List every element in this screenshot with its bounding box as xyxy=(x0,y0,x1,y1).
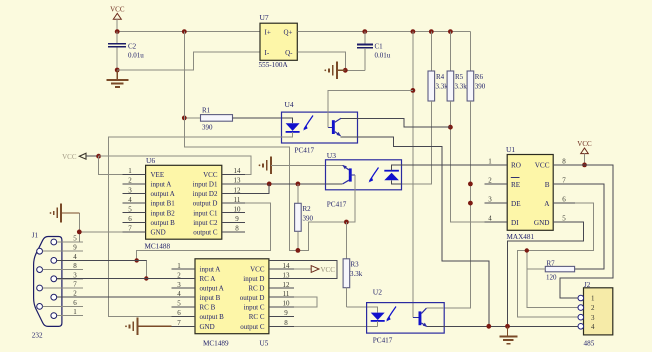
U3 phototransistor xyxy=(349,168,352,181)
junction R2 bottom xyxy=(296,248,301,253)
ground right of MC1488 pin14 xyxy=(270,157,272,175)
junction pin13 row / R2 top xyxy=(296,182,301,187)
svg-text:6: 6 xyxy=(177,309,181,317)
wire GND staircase down xyxy=(508,222,584,326)
svg-text:RC B: RC B xyxy=(200,304,216,312)
junction C2 bottom / I- return xyxy=(115,68,120,73)
svg-text:U5: U5 xyxy=(260,340,269,348)
wire B down to R7 right xyxy=(575,184,604,269)
svg-text:output D: output D xyxy=(193,200,218,208)
U4 photon arrows xyxy=(304,116,313,130)
ground above DB9 xyxy=(61,212,79,214)
svg-text:1: 1 xyxy=(488,157,492,165)
svg-text:6: 6 xyxy=(562,196,566,204)
svg-text:PC417: PC417 xyxy=(373,337,393,345)
junction C1 top xyxy=(362,29,367,34)
junction R6 line / RE xyxy=(468,182,473,187)
J1 pin 3 xyxy=(51,276,57,282)
wire Q+ rail down to U2 base xyxy=(412,32,414,318)
junction R5 / U4 collector xyxy=(448,125,453,130)
svg-text:input C2: input C2 xyxy=(193,219,218,227)
J1 pin 5 xyxy=(51,239,57,245)
svg-text:3: 3 xyxy=(128,186,132,194)
junction U3 base / R3 top xyxy=(344,220,349,225)
svg-text:8: 8 xyxy=(284,319,288,327)
svg-text:0.01u: 0.01u xyxy=(128,52,144,60)
wire VCC staircase to J2 pin1 xyxy=(560,165,613,298)
wire pin12 tie xyxy=(245,184,269,194)
svg-text:2: 2 xyxy=(73,290,77,298)
svg-text:4: 4 xyxy=(177,290,181,298)
svg-text:VEE: VEE xyxy=(151,171,165,179)
svg-text:390: 390 xyxy=(202,124,213,132)
svg-text:B: B xyxy=(545,181,550,189)
U2 phototransistor xyxy=(419,311,422,325)
svg-text:11: 11 xyxy=(283,290,290,298)
svg-text:2: 2 xyxy=(488,177,492,185)
svg-text:10: 10 xyxy=(234,206,242,214)
svg-text:5: 5 xyxy=(562,215,566,223)
junction R4 top xyxy=(429,29,434,34)
svg-text:output B: output B xyxy=(151,219,176,227)
wire R6 bottom to RE DE and U2 collector xyxy=(444,101,470,308)
svg-text:0.01u: 0.01u xyxy=(375,52,391,60)
svg-text:7: 7 xyxy=(562,177,566,185)
svg-text:14: 14 xyxy=(234,167,242,175)
resistor R5 xyxy=(449,32,451,71)
svg-text:12: 12 xyxy=(234,186,242,194)
svg-text:GND: GND xyxy=(534,219,550,227)
svg-text:2: 2 xyxy=(128,177,132,185)
svg-text:output C: output C xyxy=(193,229,218,237)
svg-text:input B: input B xyxy=(200,294,221,302)
svg-text:GND: GND xyxy=(200,323,215,331)
svg-text:6: 6 xyxy=(73,299,77,307)
resistor R4 xyxy=(430,32,432,71)
svg-text:4: 4 xyxy=(488,215,492,223)
svg-text:1: 1 xyxy=(177,262,181,270)
svg-text:390: 390 xyxy=(303,215,314,223)
wire Q- to ground xyxy=(297,52,345,71)
wire DB9 pin3 row to MC1489 pin2 xyxy=(57,278,172,280)
J2 pin 4 xyxy=(578,324,584,330)
svg-text:R1: R1 xyxy=(202,107,211,115)
junction R6 line / DE xyxy=(468,201,473,206)
capacitor C2 xyxy=(116,32,118,44)
wire VCC to MC1488 pin1 xyxy=(99,156,146,174)
svg-text:input C1: input C1 xyxy=(193,209,218,217)
wire U4 emitter staircase to ground row xyxy=(341,137,489,326)
svg-text:output B: output B xyxy=(200,313,225,321)
junction R5 top xyxy=(448,29,453,34)
J1 pin 8 xyxy=(37,267,43,273)
junction VCC branch x=184 xyxy=(182,29,187,34)
wire VCC rail to U7 I+ xyxy=(117,31,260,33)
svg-text:J1: J1 xyxy=(32,232,39,240)
svg-text:DE: DE xyxy=(511,200,521,208)
wire R5 bottom to MAX481 DI xyxy=(450,101,484,222)
U3 LED xyxy=(384,170,399,172)
junction pin13/pin12 tie xyxy=(267,182,272,187)
svg-text:3: 3 xyxy=(177,281,181,289)
svg-text:232: 232 xyxy=(32,332,43,340)
svg-text:RC C: RC C xyxy=(249,313,265,321)
wire R7 left up to A and down to J2 pin2 xyxy=(527,251,546,270)
svg-text:R4: R4 xyxy=(436,73,445,81)
wire ground to U3 emitter xyxy=(271,164,343,166)
resistor R6 xyxy=(469,32,471,71)
svg-text:DI: DI xyxy=(511,219,519,227)
svg-text:input A: input A xyxy=(200,266,221,274)
svg-text:VCC: VCC xyxy=(203,171,218,179)
svg-text:8: 8 xyxy=(235,225,239,233)
svg-text:4: 4 xyxy=(128,196,132,204)
svg-text:U3: U3 xyxy=(327,151,336,160)
svg-text:4: 4 xyxy=(73,253,77,261)
U2 photon arrows xyxy=(387,307,396,321)
svg-text:input D2: input D2 xyxy=(193,190,218,198)
J1 pin 6 xyxy=(37,304,43,310)
wire R3 bottom to U2 LED xyxy=(346,307,377,313)
svg-text:RC A: RC A xyxy=(200,275,216,283)
svg-text:VCC: VCC xyxy=(321,266,336,274)
junction VCC / pin8 row xyxy=(582,163,587,168)
svg-text:9: 9 xyxy=(73,244,77,252)
resistor R2 xyxy=(297,184,299,203)
svg-text:VCC: VCC xyxy=(535,162,550,170)
vcc branch wire x=184 down and over to R2 bottom rail xyxy=(184,32,346,251)
svg-text:VCC: VCC xyxy=(62,153,77,161)
U4 LED xyxy=(286,123,300,131)
svg-text:VCC: VCC xyxy=(250,266,265,274)
svg-text:U7: U7 xyxy=(260,13,269,22)
svg-text:PC417: PC417 xyxy=(327,201,347,209)
svg-text:14: 14 xyxy=(283,262,291,270)
wire Q+ rail xyxy=(297,31,470,33)
svg-text:U4: U4 xyxy=(285,100,294,109)
wire U3 LED anode down/right xyxy=(392,180,402,184)
wire A staircase to J2 pin3 xyxy=(518,203,594,317)
svg-text:6: 6 xyxy=(128,215,132,223)
svg-text:output A: output A xyxy=(151,190,175,198)
wire U2 collector to R6 line xyxy=(426,307,444,309)
svg-text:7: 7 xyxy=(177,319,181,327)
svg-text:VCC: VCC xyxy=(577,140,592,148)
ground below C2 xyxy=(116,70,118,80)
svg-text:390: 390 xyxy=(475,83,486,91)
svg-text:120: 120 xyxy=(546,274,557,282)
svg-text:Q+: Q+ xyxy=(283,29,292,37)
ground right of U7 xyxy=(337,69,345,71)
svg-text:U1: U1 xyxy=(506,145,515,154)
J1 pin 2 xyxy=(51,294,57,300)
wire U4 collector to R5 line xyxy=(341,118,450,127)
svg-text:RO: RO xyxy=(511,162,521,170)
svg-text:5: 5 xyxy=(73,235,77,243)
wire R4 bottom to U3 LED anode xyxy=(402,101,432,184)
power arrow VCC at MC1489 pin14 xyxy=(294,268,311,270)
capacitor C1 xyxy=(364,32,366,45)
ground left of MC1489 GND xyxy=(138,325,172,327)
J2 pin 3 xyxy=(578,314,584,320)
svg-text:5: 5 xyxy=(128,206,132,214)
svg-text:9: 9 xyxy=(235,215,239,223)
svg-text:input B1: input B1 xyxy=(151,200,176,208)
svg-text:R3: R3 xyxy=(351,261,360,269)
svg-text:1: 1 xyxy=(73,308,77,316)
svg-text:output C: output C xyxy=(240,323,265,331)
svg-text:1: 1 xyxy=(128,167,132,175)
J2 pin 2 xyxy=(578,305,584,311)
junction DB9 pin5 / GND row xyxy=(77,230,82,235)
svg-text:2: 2 xyxy=(177,271,181,279)
junction DB9 pin3 wire xyxy=(144,276,148,280)
J1 pin 9 xyxy=(37,248,43,254)
svg-text:12: 12 xyxy=(283,281,291,289)
svg-text:3: 3 xyxy=(488,196,492,204)
svg-text:3.3k: 3.3k xyxy=(436,83,449,91)
wire DB9 pin5 riser to ground and MC1488 GND xyxy=(78,213,80,242)
J1 pin 7 xyxy=(37,285,43,291)
U4 phototransistor xyxy=(332,120,335,134)
svg-text:R2: R2 xyxy=(303,205,312,213)
svg-text:MAX481: MAX481 xyxy=(507,233,535,241)
svg-text:input A: input A xyxy=(151,181,172,189)
svg-text:555-100A: 555-100A xyxy=(259,61,289,69)
svg-text:MC1488: MC1488 xyxy=(145,243,171,251)
svg-text:3.3k: 3.3k xyxy=(350,270,363,278)
svg-text:8: 8 xyxy=(73,262,77,270)
wire R1 to U4 LED xyxy=(233,118,293,123)
U3 photon arrows xyxy=(370,168,379,182)
svg-text:U2: U2 xyxy=(373,288,382,297)
junction base line U2 xyxy=(411,29,416,34)
junction R1 / VCC branch xyxy=(182,116,187,121)
svg-text:5: 5 xyxy=(177,300,181,308)
wire U4 LED cathode long run to MC1489 pin6 xyxy=(108,132,292,317)
svg-text:8: 8 xyxy=(562,157,566,165)
svg-text:2: 2 xyxy=(591,304,595,312)
svg-text:7: 7 xyxy=(128,225,132,233)
wire DB9 pin4 row xyxy=(57,259,146,261)
svg-text:3: 3 xyxy=(591,314,595,322)
svg-text:C2: C2 xyxy=(128,43,137,51)
wire ground row to J2 pin4 xyxy=(489,325,578,327)
svg-text:VCC: VCC xyxy=(110,6,125,14)
svg-text:GND: GND xyxy=(151,229,166,237)
svg-text:10: 10 xyxy=(283,300,291,308)
svg-text:3.3k: 3.3k xyxy=(455,83,468,91)
junction VCC arrow node xyxy=(96,154,101,159)
svg-text:485: 485 xyxy=(584,340,595,348)
wire U3 base down to R3 junction xyxy=(346,190,355,222)
wire U3 LED cathode to MAX481 RO xyxy=(392,165,485,171)
resistor R3 xyxy=(345,222,347,259)
wire U2 emitter to ground row xyxy=(427,325,489,327)
wire MC1489 pin13 loop to grounded run xyxy=(269,260,337,278)
svg-text:13: 13 xyxy=(234,177,242,185)
svg-text:input D: input D xyxy=(243,275,264,283)
svg-text:input D1: input D1 xyxy=(193,181,218,189)
svg-text:I-: I- xyxy=(265,49,270,57)
svg-text:1: 1 xyxy=(591,295,595,303)
junction U4 base branch xyxy=(411,88,416,93)
svg-text:output D: output D xyxy=(240,294,265,302)
svg-text:A: A xyxy=(544,200,550,208)
wire MC1488 pin13 row to R2 and U3 collector xyxy=(245,183,326,185)
svg-text:C1: C1 xyxy=(375,43,384,51)
junction VCC/C2 xyxy=(115,29,120,34)
svg-text:RE: RE xyxy=(511,181,521,189)
svg-text:input C: input C xyxy=(244,304,265,312)
junction DB9 pin4 wire xyxy=(135,258,139,262)
svg-text:Q-: Q- xyxy=(285,49,293,57)
svg-text:9: 9 xyxy=(284,309,288,317)
svg-text:output A: output A xyxy=(200,285,224,293)
svg-text:PC417: PC417 xyxy=(295,147,315,155)
wire VCC to MC1488 pin14 xyxy=(99,156,252,174)
svg-text:11: 11 xyxy=(234,196,241,204)
svg-text:I+: I+ xyxy=(265,29,271,37)
U2 LED xyxy=(371,313,385,320)
wire U7 I- to C2 bottom xyxy=(117,52,260,70)
J1 pin 4 xyxy=(51,258,57,264)
wire DB9 pin2 row to MC1489 pin4 xyxy=(57,296,172,298)
junction GND staircase / ground row xyxy=(505,324,510,329)
IC U5 MC1489 xyxy=(195,259,269,334)
wire MC1488 pin11 staircase to MC1489 pin2 xyxy=(137,203,271,278)
svg-text:4: 4 xyxy=(591,323,595,331)
svg-text:RC D: RC D xyxy=(248,285,264,293)
junction R7 / A wire xyxy=(525,248,529,252)
wire U4 base up to Q+ line xyxy=(328,90,413,127)
junction Q-/C1/ground xyxy=(343,68,348,73)
J1 pin 1 xyxy=(51,313,57,319)
svg-text:R6: R6 xyxy=(475,73,484,81)
svg-text:R5: R5 xyxy=(455,73,464,81)
svg-text:U6: U6 xyxy=(146,156,155,165)
svg-text:MC1489: MC1489 xyxy=(203,340,229,348)
junction U4 emitter / ground row xyxy=(486,324,491,329)
svg-text:7: 7 xyxy=(73,281,77,289)
wire MC1489 pin8 to U2 LED cathode xyxy=(294,325,378,327)
svg-text:input B2: input B2 xyxy=(151,209,176,217)
wire MC1489 pins10-11 loop xyxy=(294,297,317,307)
svg-text:13: 13 xyxy=(283,271,291,279)
ground bottom center xyxy=(507,326,509,336)
J2 pin 1 xyxy=(578,295,584,301)
